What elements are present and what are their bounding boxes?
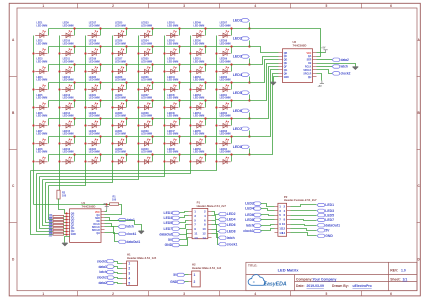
svg-text:RCLK: RCLK [93, 224, 100, 226]
LED LED8 [35, 148, 47, 164]
junction flag LED1 stub [248, 27, 250, 29]
net flag LED7 (P1 left) [164, 227, 180, 231]
svg-text:LED-5MM: LED-5MM [115, 115, 126, 118]
svg-text:LED2: LED2 [245, 202, 254, 206]
wire R4 to U1 pin [64, 219, 67, 221]
junction column 1 row 2 [32, 52, 34, 54]
LED LED38 [140, 112, 152, 128]
svg-text:LED3: LED3 [325, 209, 334, 213]
wire row net LED3 horizontal [49, 64, 250, 66]
net flag LED1 (P1 left) [164, 211, 180, 215]
svg-text:LED4: LED4 [227, 218, 236, 222]
LED LED17 [88, 22, 100, 38]
junction flag LED5 stub [248, 99, 250, 101]
LED LED45 [166, 94, 178, 110]
junction row 7 col 5 [151, 135, 153, 137]
junction row 3 col 5 [151, 63, 153, 65]
net flag LED8 (P2 left) [245, 218, 261, 222]
junction column 6 row 3 [163, 70, 165, 72]
wire P1 pin 13 [180, 238, 189, 246]
svg-text:LED-5MM: LED-5MM [63, 24, 74, 27]
svg-text:LED8: LED8 [227, 229, 236, 233]
junction row 7 col 3 [99, 135, 101, 137]
LED LED18 [88, 40, 100, 56]
wire row6 to U2 pin [250, 67, 279, 119]
junction column 2 row 3 [58, 70, 60, 72]
wire U1 GND to ground [65, 237, 70, 243]
junction row 3 col 6 [178, 63, 180, 65]
net flag dataOut (P1 left) [159, 232, 180, 236]
junction column 7 row 3 [189, 70, 191, 72]
net flag LED5 [233, 91, 250, 101]
wire row4 to U2 pin [250, 60, 279, 83]
svg-text:LED-5MM: LED-5MM [141, 97, 152, 100]
LED LED48 [166, 148, 178, 164]
svg-text:LED-5MM: LED-5MM [141, 115, 152, 118]
svg-text:LED Matrix: LED Matrix [278, 268, 300, 273]
wire U2 SRCLK to clock2 flag [317, 70, 333, 74]
wire R5 to U1 pin [64, 222, 67, 224]
junction row 5 col 3 [99, 99, 101, 101]
wire LED6 cathode jog [48, 119, 50, 126]
svg-text:dataOut: dataOut [159, 232, 173, 236]
wire P1 pin 7 [180, 225, 189, 229]
junction column 2 row 5 [58, 106, 60, 108]
junction flag LED4 stub [248, 81, 250, 83]
svg-text:LED-5MM: LED-5MM [89, 79, 100, 82]
wire LED62 cathode jog [231, 119, 233, 126]
svg-text:LED-5MM: LED-5MM [63, 79, 74, 82]
wire column 3 vertical [49, 36, 86, 186]
wire P1 pin 10 [212, 230, 219, 238]
junction row 6 col 5 [151, 117, 153, 119]
net flag LED2 (P2 left) [245, 202, 261, 206]
junction column 2 row 2 [58, 52, 60, 54]
resistor R2 [57, 190, 67, 199]
LED LED39 [140, 130, 152, 146]
svg-text:1: 1 [42, 292, 44, 296]
svg-text:clock1: clock1 [126, 232, 136, 236]
net flag LED5 (P2 right) [317, 213, 334, 217]
junction column 5 row 2 [137, 52, 139, 54]
junction row 1 col 8 [230, 27, 232, 29]
LED LED27 [114, 58, 126, 74]
wire column 7 vertical [37, 36, 191, 174]
svg-text:GND: GND [71, 234, 76, 236]
wire bundle to resistor (column 7) [37, 174, 53, 232]
wire U1 to dataOut1 flag [105, 233, 119, 242]
svg-text:QH: QH [96, 233, 100, 235]
wire P1 pin 5 [180, 221, 189, 223]
svg-text:clock2: clock2 [97, 276, 107, 280]
junction R3 pin [65, 215, 67, 217]
junction row 4 col 8 [230, 81, 232, 83]
svg-text:LED-5MM: LED-5MM [36, 42, 47, 45]
junction column 7 row 8 [189, 160, 191, 162]
net flag LED5 (P1 left) [164, 221, 180, 225]
svg-text:LED-5MM: LED-5MM [193, 115, 204, 118]
svg-text:1: 1 [128, 262, 130, 266]
wire LED63 cathode jog [231, 137, 233, 144]
junction column 7 row 5 [189, 106, 191, 108]
junction row 2 col 4 [125, 45, 127, 47]
svg-text:+5V: +5V [321, 48, 326, 50]
LED LED41 [166, 22, 178, 38]
wire P1 pin 4 [212, 216, 219, 220]
junction column 5 row 8 [137, 160, 139, 162]
junction R5 pin [65, 221, 67, 223]
wire row net LED8 horizontal [49, 154, 250, 156]
junction column 2 row 4 [58, 88, 60, 90]
svg-text:LED-5MM: LED-5MM [220, 151, 231, 154]
junction row 4 col 2 [73, 81, 75, 83]
wire LED53 cathode jog [205, 101, 207, 108]
wire R7 to U1 pin [64, 228, 67, 230]
junction column 4 row 8 [111, 160, 113, 162]
LED LED4 [35, 76, 47, 92]
net flag clock2 (U2) [332, 72, 351, 76]
net flag latch [118, 225, 134, 229]
LED LED1 [35, 22, 47, 38]
junction column 1 row 7 [32, 142, 34, 144]
junction row 1 col 5 [151, 27, 153, 29]
wire P1 pin 11 [180, 234, 189, 240]
junction row 1 col 6 [178, 27, 180, 29]
wire LED23 cathode jog [100, 137, 102, 144]
svg-text:Sheet:: Sheet: [390, 277, 400, 281]
junction column 1 row 4 [32, 88, 34, 90]
junction column 2 row 7 [58, 142, 60, 144]
wire P2 pin 14 [291, 233, 317, 236]
junction column 8 row 8 [215, 160, 217, 162]
wire LED47 cathode jog [179, 137, 181, 144]
svg-text:GND: GND [165, 243, 173, 247]
wire U2 RCLK to latch flag [317, 66, 333, 68]
wire LED10 cathode jog [74, 47, 76, 54]
LED LED19 [88, 58, 100, 74]
junction row 8 col 7 [204, 153, 206, 155]
wire U2 GND to ground [274, 77, 279, 83]
svg-text:data1: data1 [98, 265, 107, 269]
svg-text:dataOut1: dataOut1 [126, 240, 140, 244]
svg-text:LED1: LED1 [325, 203, 334, 207]
wire U1 to latch flag [105, 224, 119, 227]
LED LED40 [140, 148, 152, 164]
junction column 3 row 8 [84, 160, 86, 162]
wire LED8 cathode jog [48, 155, 50, 162]
svg-text:OE: OE [308, 63, 312, 65]
junction row 5 col 5 [151, 99, 153, 101]
svg-text:QG: QG [71, 228, 75, 230]
net flag dataOut1 (P2 right) [317, 223, 340, 227]
wire LED44 cathode jog [179, 83, 181, 90]
LED LED6 [35, 112, 47, 128]
svg-text:LED-5MM: LED-5MM [89, 60, 100, 63]
wire LED45 cathode jog [179, 101, 181, 108]
net flag LED4 (P1 right) [218, 218, 235, 222]
junction row 8 col 6 [178, 153, 180, 155]
svg-text:2019-03-09: 2019-03-09 [307, 284, 324, 288]
wire LED32 cathode jog [126, 155, 128, 162]
wire LED38 cathode jog [152, 119, 154, 126]
junction column 3 row 2 [84, 52, 86, 54]
LED LED42 [166, 40, 178, 56]
junction row 2 col 6 [178, 45, 180, 47]
junction row 3 col 4 [125, 63, 127, 65]
svg-text:data2: data2 [341, 58, 350, 62]
svg-text:LED-5MM: LED-5MM [167, 24, 178, 27]
LED LED25 [114, 22, 126, 38]
svg-text:LED-5MM: LED-5MM [141, 60, 152, 63]
svg-text:SRCLK: SRCLK [303, 70, 311, 72]
svg-text:LED-5MM: LED-5MM [115, 151, 126, 154]
LED LED32 [114, 148, 126, 164]
wire LED64 cathode jog [231, 155, 233, 162]
wire row net LED4 horizontal [49, 82, 250, 84]
svg-text:dataOut1: dataOut1 [325, 223, 340, 227]
net flag LED1 [233, 19, 250, 29]
svg-text:Header-Female-2.54_2x7: Header-Female-2.54_2x7 [284, 198, 317, 202]
junction flag LED7 stub [248, 135, 250, 137]
svg-text:GND: GND [325, 234, 333, 238]
net flag LED7 (P2 right) [317, 218, 334, 222]
wire U1 to data1 flag [105, 218, 119, 221]
svg-text:LED-5MM: LED-5MM [220, 79, 231, 82]
junction row 8 col 2 [73, 153, 75, 155]
wire R2 to U1 QB [59, 199, 67, 214]
svg-text:LED-5MM: LED-5MM [141, 42, 152, 45]
junction column 8 row 2 [215, 52, 217, 54]
junction column 4 row 4 [111, 88, 113, 90]
junction flag LED6 stub [248, 117, 250, 119]
wire U1 VCC to +5V [105, 210, 107, 212]
junction column 8 row 6 [215, 124, 217, 126]
svg-text:latch: latch [246, 224, 254, 228]
ground at U2 GND [271, 82, 276, 85]
resistor R7 [48, 227, 63, 232]
wire bundle to resistor (column 8) [31, 171, 53, 235]
connector P1 Header-Mate-2.54_2x7 body [189, 200, 227, 239]
wire R6 to U1 pin [64, 225, 67, 227]
junction R6 pin [65, 224, 67, 226]
connector P2 Header-Female-2.54_2x7 body [275, 195, 317, 237]
wire LED20 cathode jog [100, 83, 102, 90]
svg-text:10: 10 [202, 227, 206, 231]
svg-text:Header-Male-2.54_1x5: Header-Male-2.54_1x5 [127, 256, 157, 260]
wire row net LED2 horizontal [49, 46, 250, 48]
wire LED5 cathode jog [48, 101, 50, 108]
junction column 5 row 4 [137, 88, 139, 90]
resistor R1 [110, 195, 119, 205]
LED LED7 [35, 130, 47, 146]
wire P2 pin 8 [291, 220, 317, 221]
LED LED36 [140, 76, 152, 92]
wire bundle to resistor (column 4) [46, 183, 53, 223]
net flag LED3 (P2 right) [317, 209, 334, 213]
junction row 4 col 4 [125, 81, 127, 83]
junction column 5 row 5 [137, 106, 139, 108]
LED LED49 [192, 22, 204, 38]
junction row 4 col 7 [204, 81, 206, 83]
svg-text:LED-5MM: LED-5MM [193, 42, 204, 45]
LED LED50 [192, 40, 204, 56]
junction column 8 row 4 [215, 88, 217, 90]
svg-text:QE: QE [284, 63, 288, 65]
LED LED52 [192, 76, 204, 92]
LED LED56 [192, 148, 204, 164]
svg-text:LED-5MM: LED-5MM [115, 97, 126, 100]
wire column 1 to R1 [34, 204, 110, 206]
junction row 1 col 3 [99, 27, 101, 29]
junction row 7 col 7 [204, 135, 206, 137]
svg-text:LED-5MM: LED-5MM [220, 24, 231, 27]
svg-text:13: 13 [194, 236, 198, 240]
wire U1 to clock1 flag [105, 227, 119, 234]
LED LED34 [140, 40, 152, 56]
svg-text:clock1: clock1 [243, 229, 254, 233]
LED LED35 [140, 58, 152, 74]
wire P2 pin 4 [291, 210, 317, 212]
resistor R9 [48, 233, 63, 238]
wire LED33 cathode jog [152, 29, 154, 36]
wire LED12 cathode jog [74, 83, 76, 90]
svg-text:74HC595D: 74HC595D [82, 204, 96, 208]
net flag LED6 (P1 right) [218, 223, 235, 227]
LED LED15 [61, 130, 73, 146]
junction column 3 row 6 [84, 124, 86, 126]
LED LED44 [166, 76, 178, 92]
wire column 8 vertical [31, 36, 217, 171]
frame row ticks and letters [10, 77, 421, 223]
svg-text:2: 2 [194, 280, 196, 284]
LED LED12 [61, 76, 73, 92]
junction column 6 row 6 [163, 124, 165, 126]
svg-text:LED-5MM: LED-5MM [141, 151, 152, 154]
LED LED57 [218, 22, 230, 38]
wire LED13 cathode jog [74, 101, 76, 108]
wire LED40 cathode jog [152, 155, 154, 162]
svg-text:LED-5MM: LED-5MM [36, 60, 47, 63]
svg-text:LED-5MM: LED-5MM [89, 97, 100, 100]
wire R9 to U1 pin [64, 234, 67, 236]
junction column 7 row 2 [189, 52, 191, 54]
svg-text:LED-5MM: LED-5MM [36, 115, 47, 118]
svg-text:QE: QE [71, 222, 75, 224]
svg-text:LED-5MM: LED-5MM [115, 24, 126, 27]
wire bundle to resistor (column 5) [43, 180, 53, 226]
svg-text:LED-5MM: LED-5MM [89, 115, 100, 118]
wire LED29 cathode jog [126, 101, 128, 108]
svg-text:14: 14 [282, 231, 286, 235]
LED LED63 [218, 130, 230, 146]
svg-text:3: 3 [183, 4, 185, 8]
net flag data1 [118, 218, 135, 222]
junction row 7 col 6 [178, 135, 180, 137]
wire P2 pin 12 [291, 229, 317, 231]
net flag GND (P2 right) [317, 234, 333, 238]
junction row 6 col 6 [178, 117, 180, 119]
wire LED55 cathode jog [205, 137, 207, 144]
LED LED31 [114, 130, 126, 146]
junction row 8 col 5 [151, 153, 153, 155]
svg-text:LED-5MM: LED-5MM [220, 42, 231, 45]
wire U2 VCC to +5V [317, 52, 326, 54]
svg-text:Header-Mate-2.54_2x7: Header-Mate-2.54_2x7 [197, 204, 227, 208]
wire row1 to U2 QA [250, 29, 321, 57]
LED LED30 [114, 112, 126, 128]
junction column 4 row 3 [111, 70, 113, 72]
wire row net LED1 horizontal [49, 28, 250, 30]
svg-text:LED-5MM: LED-5MM [89, 42, 100, 45]
junction row 7 col 8 [230, 135, 232, 137]
svg-text:GND: GND [170, 280, 178, 284]
svg-text:LED3: LED3 [164, 216, 173, 220]
junction row 3 col 8 [230, 63, 232, 65]
junction row 8 col 4 [125, 153, 127, 155]
title block [246, 262, 418, 290]
junction column 8 row 5 [215, 106, 217, 108]
net flag LED2 (P1 right) [218, 212, 235, 216]
svg-text:latch: latch [227, 236, 235, 240]
wire LED46 cathode jog [179, 119, 181, 126]
wire LED18 cathode jog [100, 47, 102, 54]
junction row 3 col 2 [73, 63, 75, 65]
junction column 4 row 6 [111, 124, 113, 126]
junction column 1 row 8 [32, 160, 34, 162]
svg-text:14: 14 [202, 236, 206, 240]
svg-text:100: 100 [62, 194, 67, 197]
svg-text:QD: QD [284, 60, 288, 62]
wire LED15 cathode jog [74, 137, 76, 144]
wire bundle to resistor (column 6) [40, 177, 53, 229]
svg-text:GND: GND [284, 77, 289, 79]
svg-text:LED5: LED5 [233, 91, 242, 95]
wire P2 pin 5 [261, 215, 275, 216]
wire U2 OE to ground [317, 64, 356, 67]
wire LED30 cathode jog [126, 119, 128, 126]
wire P1 pin 1 [180, 212, 189, 213]
wire row net LED7 horizontal [49, 136, 250, 138]
ground at U1 OE [139, 231, 144, 234]
wire row3 to U2 pin [250, 57, 279, 65]
junction flag LED8 stub [248, 153, 250, 155]
svg-text:LED-5MM: LED-5MM [193, 60, 204, 63]
wire P1 pin 2 [212, 212, 219, 215]
LED LED21 [88, 94, 100, 110]
wire LED37 cathode jog [152, 101, 154, 108]
net flag clock2 (H1) [97, 276, 115, 280]
junction column 4 row 5 [111, 106, 113, 108]
wire LED31 cathode jog [126, 137, 128, 144]
net flag LED4 [233, 73, 250, 83]
junction row 6 col 8 [230, 117, 232, 119]
wire LED61 cathode jog [231, 101, 233, 108]
wire H1 pin 3 [114, 273, 123, 274]
junction row 1 col 2 [73, 27, 75, 29]
svg-text:LED-5MM: LED-5MM [141, 79, 152, 82]
net flag latch (P2 left) [246, 224, 262, 228]
wire row8 to U2 pin [250, 74, 279, 155]
wire P2 pin 10 [291, 225, 317, 226]
svg-text:LED-5MM: LED-5MM [193, 24, 204, 27]
junction column 3 row 4 [84, 88, 86, 90]
svg-text:LED-5MM: LED-5MM [89, 133, 100, 136]
net flag LED2 [233, 37, 250, 47]
LED LED14 [61, 112, 73, 128]
wire H2 pin 1 [185, 274, 189, 276]
svg-text:LED4: LED4 [233, 73, 242, 77]
junction column 3 row 5 [84, 106, 86, 108]
